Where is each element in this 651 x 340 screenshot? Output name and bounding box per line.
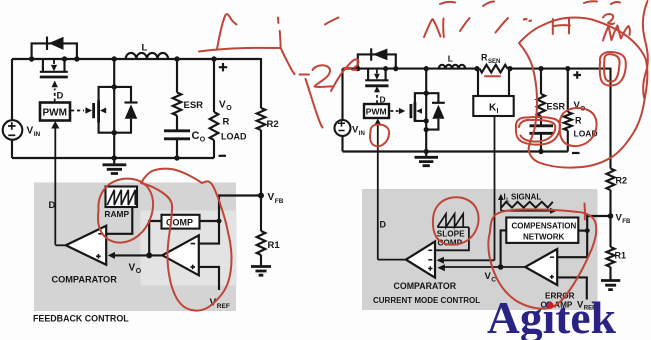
- capacitor CO (left): [164, 116, 190, 159]
- node: switch node on top rail: [112, 56, 117, 61]
- ground (right mid): [415, 152, 439, 166]
- svg-text:LOAD: LOAD: [221, 132, 247, 142]
- annotation: red tick near VFB (right): [584, 204, 586, 220]
- node: RSEN left junction: [474, 66, 479, 71]
- svg-text:O: O: [226, 105, 232, 112]
- resistor ESR (right): [540, 69, 542, 94]
- wire: junction down to error amp minus input: [199, 221, 219, 244]
- inductor L (right): [439, 65, 465, 69]
- IL signal triangle waveform: [501, 202, 553, 208]
- annotation: red horizontal stroke: [199, 48, 280, 52]
- resistor R1 (right): [609, 216, 611, 247]
- node: Q2 drain junction: [112, 84, 117, 89]
- source VIN (right): [335, 120, 351, 136]
- node: ESR branch bottom (right): [538, 149, 543, 154]
- svg-text:COMPARATOR: COMPARATOR: [52, 275, 118, 285]
- svg-text:ESR: ESR: [184, 100, 204, 111]
- node VFB (left): [258, 193, 264, 199]
- annotation: red tick top-left: [277, 18, 279, 23]
- pin - (error amp left): [191, 243, 196, 245]
- node: Q3 source junction: [383, 66, 388, 71]
- annotation: red numeral 2: [313, 65, 334, 87]
- KI current sense block: [473, 96, 513, 116]
- node: Q1 loop left junction: [29, 56, 34, 61]
- svg-text:R2: R2: [616, 176, 628, 186]
- node VFB (right): [608, 213, 614, 219]
- annotation: red corner rect 1 top-right: [600, 52, 626, 86]
- wire: KI sense taps: [478, 69, 509, 96]
- diode D3 (across Q3): [371, 48, 387, 60]
- wire: PWM to Q4 gate (dashed arrow, right): [391, 110, 399, 112]
- ground (right R1): [601, 267, 620, 290]
- node VO (left control): [146, 252, 152, 258]
- node: switch branch on bottom rail: [112, 155, 117, 160]
- wire: comp network left down to VC node: [501, 230, 507, 267]
- wire: slope comp to comparator top minus input: [435, 227, 469, 250]
- svg-text:D: D: [380, 220, 387, 230]
- inductor L (left): [126, 53, 168, 59]
- wire: right bottom rail: [343, 150, 568, 152]
- COMPENSATION NETWORK block: [506, 218, 578, 243]
- pin - slope (comparator right): [428, 249, 432, 251]
- label - output (left): [219, 155, 227, 157]
- svg-text:SIGNAL: SIGNAL: [511, 193, 541, 202]
- annotation: red minus dash: [300, 74, 310, 76]
- resistor R LOAD (right): [567, 69, 569, 112]
- resistor R1 (left): [260, 196, 262, 232]
- ground (left R1): [251, 255, 271, 275]
- resistor R2 (left): [257, 108, 266, 130]
- annotation: red slash 2: [496, 18, 509, 33]
- svg-text:R1: R1: [268, 240, 281, 251]
- annotation: red big oval around right output: [519, 18, 647, 168]
- wire: R2 to VFB node: [260, 130, 262, 196]
- op-amp error amplifier (right): [525, 249, 557, 285]
- svg-text:RAMP: RAMP: [104, 209, 129, 219]
- wire: PWM to Q2 gate (dashed arrow, left): [71, 110, 84, 112]
- node: Q4 drain junction: [424, 91, 429, 96]
- svg-text:V: V: [129, 263, 136, 274]
- svg-text:IN: IN: [359, 131, 365, 137]
- diode D4 (across Q4, right): [426, 93, 445, 129]
- wire: RAMP to comparator minus input: [106, 207, 132, 234]
- svg-text:R: R: [575, 116, 582, 126]
- svg-text:SEN: SEN: [488, 59, 500, 65]
- svg-text:ESR: ESR: [547, 102, 566, 112]
- svg-text:V: V: [268, 192, 275, 203]
- diode D2 (across Q2, left): [114, 87, 137, 133]
- diode D1 (across Q1): [47, 37, 64, 51]
- node: load branch top (right): [565, 66, 570, 71]
- wire: right input rail lower: [341, 136, 343, 152]
- transistor Q4 (low-side MOSFET, right): [411, 93, 426, 121]
- wire: error amp plus input to VREF (right): [557, 277, 587, 299]
- wire: body diode loop Q3: [358, 54, 396, 68]
- annotation: red underline RSEN: [485, 75, 500, 77]
- annotation: red loop around R LOAD (right): [560, 108, 597, 146]
- wire: comparator output (right): [378, 259, 406, 261]
- transistor Q2 (low-side MOSFET, left): [94, 87, 115, 133]
- op-amp error amplifier (left): [162, 235, 199, 275]
- node: Q1 source junction: [62, 56, 67, 61]
- annotation: red hook down from junction: [281, 48, 295, 75]
- svg-text:Agitek: Agitek: [487, 292, 617, 340]
- annotation: red diagonal stroke: [306, 79, 323, 128]
- node: compensation junction (left): [217, 219, 222, 224]
- wire: R2 to VFB (right): [609, 190, 611, 216]
- pin - (comparator left): [98, 233, 103, 235]
- IL signal graph: vertical axis arrow: [500, 200, 502, 211]
- wire: COMP right to junction: [200, 220, 220, 222]
- wire: Q1 gate drive (dashed, from PWM): [54, 89, 56, 102]
- svg-text:L: L: [142, 43, 148, 54]
- feedback control block background: [34, 183, 236, 312]
- label + output (left): [219, 63, 227, 71]
- transistor Q1 (high-side PMOS, left): [40, 59, 68, 77]
- node: Q3 loop right junction: [393, 66, 398, 71]
- annotation: red squiggle 2 top-right: [603, 14, 614, 24]
- node: compensation junction (right): [585, 228, 590, 233]
- wire: right top rail (segments around RSEN): [343, 68, 611, 70]
- ground (left mid): [103, 158, 127, 174]
- annotation: red vertical tick mid-top: [442, 19, 445, 38]
- node: RSEN right junction: [507, 66, 512, 71]
- annotation: red loop around COMP error amp (left): [141, 169, 232, 311]
- wire: comparator output up to PWM (left): [54, 128, 56, 245]
- svg-text:FEEDBACK CONTROL: FEEDBACK CONTROL: [33, 314, 129, 324]
- wire: comp network right to junction: [578, 230, 587, 232]
- svg-text:CURRENT MODE CONTROL: CURRENT MODE CONTROL: [373, 296, 480, 305]
- PWM block (right): [364, 104, 389, 118]
- svg-text:R1: R1: [615, 251, 627, 261]
- svg-text:FB: FB: [275, 198, 284, 205]
- wire: error amp output through VC to comparator plus (arrow): [445, 266, 526, 268]
- annotation: red circle around RAMP: [98, 179, 153, 243]
- wire: IL signal arrow into comparator minus input: [444, 259, 495, 261]
- transistor Q3 (high-side PMOS, right): [365, 69, 388, 86]
- svg-text:D: D: [57, 91, 64, 102]
- annotation: red inner loop output capacitor: [519, 120, 555, 142]
- wire: COMP left down to VO node: [149, 221, 161, 255]
- annotation: red stroke down-left of right circuit: [331, 59, 358, 91]
- node: Q1 loop right junction: [74, 56, 79, 61]
- annotation: red loop around output capacitor: [516, 117, 560, 145]
- svg-text:V: V: [27, 126, 34, 137]
- wire: KI output down to comparator: [494, 116, 496, 260]
- node: switch node on right top rail: [424, 66, 429, 71]
- svg-text:IN: IN: [34, 131, 41, 138]
- svg-text:R: R: [223, 117, 230, 128]
- label - output (right): [572, 152, 580, 154]
- svg-text:PWM: PWM: [43, 108, 67, 119]
- current mode control block background: [362, 189, 598, 310]
- node: switch branch on right bottom rail: [424, 149, 429, 154]
- wire: left bottom rail: [12, 157, 214, 159]
- capacitor CO (right): [530, 116, 554, 152]
- wire: right rail corner down to R2: [609, 68, 611, 169]
- wire: left top rail: [12, 58, 261, 60]
- wire: error amp output to comparator plus input (arrow): [112, 254, 162, 256]
- wire: left input rail lower: [11, 140, 13, 159]
- wire: VFB feedback into control box: [219, 196, 261, 222]
- svg-text:NETWORK: NETWORK: [523, 233, 565, 242]
- node: load branch top: [211, 56, 216, 61]
- logo red dot: [547, 302, 554, 309]
- COMP block (left compensation): [162, 215, 200, 229]
- annotation: red A-scribble mid-top: [424, 19, 441, 37]
- node: Q3 loop left junction: [355, 66, 360, 71]
- svg-text:O: O: [136, 268, 142, 275]
- svg-text:D: D: [49, 200, 56, 211]
- annotation: red dashes on right rail: [345, 68, 357, 70]
- wire: junction down to error amp minus input: [557, 231, 587, 258]
- pin - IL (comparator right): [428, 259, 432, 261]
- svg-text:REF: REF: [217, 303, 230, 310]
- annotation: red loop around error amp section (right): [488, 209, 596, 308]
- node: ESR branch top (right): [538, 66, 543, 71]
- annotation: red lambda scribble top-left: [217, 14, 237, 49]
- svg-text:V: V: [219, 100, 226, 111]
- svg-text:FB: FB: [622, 219, 631, 225]
- IL signal graph: horizontal axis arrow: [501, 210, 550, 212]
- svg-text:I: I: [497, 108, 499, 115]
- pin + (comparator right): [428, 266, 432, 270]
- pin - (error amp right): [550, 256, 554, 258]
- annotation: red H mark top-right: [553, 19, 570, 35]
- wire: VFB feedback into current mode box: [587, 216, 610, 231]
- ramp generator RAMP (left): [104, 187, 137, 219]
- annotation: red corner rect 2 top-right: [604, 54, 619, 81]
- annotation: red vertical stroke to junction: [279, 31, 282, 48]
- wire: switch node branch (right): [425, 69, 427, 152]
- annotation: red slash above 2: [325, 18, 339, 25]
- wire: comparator output up to PWM (right): [377, 125, 379, 260]
- resistor ESR (left): [176, 59, 178, 93]
- pin + (error amp left): [190, 265, 195, 270]
- node: ESR branch bottom: [174, 155, 179, 160]
- pin + (comparator left): [96, 254, 101, 259]
- annotation: red tw scribble top-right: [603, 26, 630, 41]
- comparator U1 (left): [66, 226, 106, 265]
- svg-text:COMPARATOR: COMPARATOR: [394, 281, 457, 291]
- pin + (error amp right): [550, 275, 554, 279]
- source VIN (left): [3, 120, 23, 140]
- wire: left input rail upper: [11, 59, 13, 121]
- annotation: red blob near VIN (right): [370, 125, 389, 147]
- wire: error amp plus input to VREF: [199, 267, 219, 290]
- svg-text:SLOPE: SLOPE: [437, 230, 465, 239]
- node VC: [498, 264, 504, 270]
- resistor R LOAD (left): [213, 59, 215, 112]
- svg-text:COMPENSATION: COMPENSATION: [512, 222, 577, 231]
- node: Q4 diode anode junction: [424, 127, 429, 132]
- annotation: red small dots top-right: [524, 19, 531, 21]
- wire: comparator output (left): [55, 244, 66, 246]
- svg-text:PWM: PWM: [366, 107, 387, 117]
- svg-text:O: O: [200, 137, 206, 144]
- svg-text:R2: R2: [267, 119, 279, 130]
- node: ESR branch top: [174, 56, 179, 61]
- resistor RSEN: [480, 65, 508, 73]
- node: Q2 source junction: [112, 130, 117, 135]
- slope compensation sawtooth: [437, 226, 469, 228]
- wire: switch node branch (left): [113, 59, 115, 158]
- annotation: red slash 1: [460, 18, 470, 31]
- svg-text:L: L: [448, 54, 453, 64]
- annotation: red circle around slope comp: [433, 197, 479, 245]
- annotation: red top edge ticks: [440, 1, 620, 6]
- svg-text:R: R: [481, 53, 488, 63]
- PWM block (left): [40, 103, 70, 121]
- svg-text:C: C: [192, 130, 200, 142]
- node: Q4 source junction: [424, 118, 429, 123]
- annotation: red wavy right edge: [643, 1, 648, 98]
- wire: top rail corner to R2 (left): [260, 58, 262, 108]
- label + output (right): [573, 71, 581, 79]
- error amp compensation inner background: [141, 211, 237, 286]
- wire: Q3 gate drive (dashed, from PWM right): [376, 93, 378, 104]
- resistor R2 (right): [607, 169, 615, 191]
- wire: body diode loop Q1: [32, 43, 77, 59]
- comparator U2 (right): [406, 242, 435, 278]
- wire: right input rail upper: [341, 69, 343, 121]
